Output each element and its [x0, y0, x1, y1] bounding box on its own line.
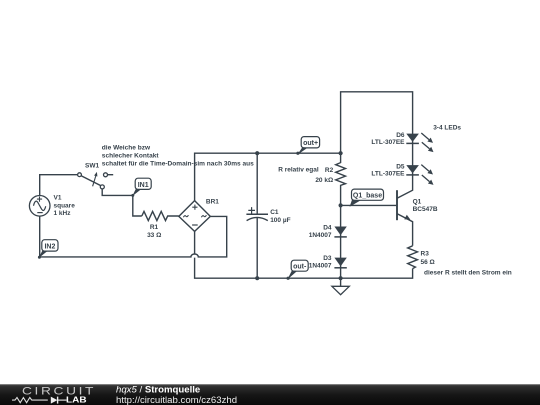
svg-text:C1: C1 [270, 209, 279, 216]
svg-text:hqx5 / Stromquelle: hqx5 / Stromquelle [116, 384, 200, 395]
svg-text:56 Ω: 56 Ω [421, 259, 435, 266]
svg-text:3-4 LEDs: 3-4 LEDs [433, 125, 461, 132]
svg-text:LAB: LAB [66, 395, 87, 404]
svg-text:die Weiche bzw: die Weiche bzw [102, 145, 151, 152]
svg-text:1N4007: 1N4007 [309, 232, 332, 239]
svg-text:20 kΩ: 20 kΩ [315, 177, 333, 184]
svg-text:schlecher Kontakt: schlecher Kontakt [102, 153, 160, 160]
svg-text:D6: D6 [396, 132, 405, 139]
svg-text:D3: D3 [323, 255, 332, 262]
svg-text:1N4007: 1N4007 [309, 263, 332, 270]
svg-text:R3: R3 [421, 250, 430, 257]
svg-text:100 µF: 100 µF [270, 217, 290, 224]
svg-text:R relativ egal: R relativ egal [278, 167, 319, 174]
svg-text:out-: out- [293, 263, 307, 270]
svg-text:http://circuitlab.com/cz63zhd: http://circuitlab.com/cz63zhd [116, 395, 237, 405]
svg-text:SW1: SW1 [85, 163, 99, 170]
svg-text:Q1_base: Q1_base [353, 193, 382, 200]
svg-text:D4: D4 [323, 224, 332, 231]
svg-text:IN1: IN1 [138, 182, 149, 189]
svg-text:R2: R2 [325, 167, 334, 174]
svg-text:R1: R1 [150, 224, 159, 231]
svg-text:33 Ω: 33 Ω [147, 232, 161, 239]
svg-text:square: square [54, 202, 76, 209]
svg-text:D5: D5 [396, 163, 405, 170]
svg-text:BR1: BR1 [206, 198, 219, 205]
svg-text:schaltet für die Time-Domain-s: schaltet für die Time-Domain-sim nach 30… [102, 161, 254, 168]
svg-text:IN2: IN2 [44, 243, 55, 250]
svg-text:LTL-307EE: LTL-307EE [371, 139, 405, 146]
svg-text:1 kHz: 1 kHz [54, 210, 72, 217]
svg-text:dieser R stellt den Strom ein: dieser R stellt den Strom ein [424, 270, 512, 277]
svg-text:Q1: Q1 [413, 199, 422, 206]
svg-text:BC547B: BC547B [413, 206, 438, 213]
svg-text:out+: out+ [303, 140, 318, 147]
svg-text:LTL-307EE: LTL-307EE [371, 170, 405, 177]
svg-text:V1: V1 [54, 195, 62, 202]
